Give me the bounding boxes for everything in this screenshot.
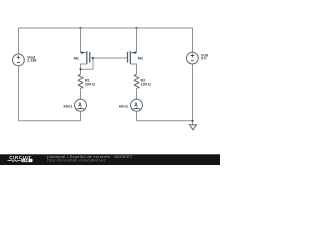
wire left branch down: [19, 66, 81, 121]
gate bar: [127, 52, 129, 63]
wire gate net M1-M2: [90, 57, 128, 59]
gate bar: [89, 52, 91, 63]
svg-text:100 Ω: 100 Ω: [85, 82, 96, 87]
wire R1 to ammeter: [80, 89, 82, 100]
resistor R1: [78, 74, 83, 88]
svg-text:M2: M2: [138, 55, 144, 60]
logo zigzag: [8, 160, 21, 162]
node drain junction M1: [79, 68, 81, 70]
wire R2 to ammeter 2: [136, 89, 138, 100]
wire ammeter 1 to bottom left rail: [80, 111, 82, 121]
svg-text:Idm1: Idm1: [63, 104, 73, 109]
wire gate to drain diode connection: [81, 58, 94, 69]
wire Vdd to ground: [192, 64, 194, 125]
watermark bar: [0, 154, 220, 165]
svg-text:LAB: LAB: [23, 159, 30, 163]
logo LAB box: [21, 159, 32, 162]
source arrow: [81, 51, 84, 54]
transistor M1: [81, 28, 90, 74]
svg-text:A: A: [134, 102, 138, 108]
channel: [129, 51, 131, 64]
wire ammeter 2 to bottom right rail: [137, 111, 193, 121]
drain lead: [81, 64, 87, 74]
node bottom right junction: [191, 120, 193, 122]
node drain M1 on top rail: [79, 27, 81, 29]
node source M2 on top rail: [135, 27, 137, 29]
svg-text:Idm2: Idm2: [119, 104, 129, 109]
wire top rail: [19, 28, 193, 54]
node gate junction: [92, 57, 94, 59]
svg-text:A: A: [78, 102, 82, 108]
source lead from rail: [81, 28, 87, 53]
svg-text:5 V: 5 V: [201, 56, 207, 61]
wire M2 drain to R2 handled above; resistor R2: [134, 74, 139, 88]
svg-text:http://circuitlab.com/c8t4rsu2: http://circuitlab.com/c8t4rsu2: [47, 158, 106, 163]
ammeter AM2 Idm2: [131, 99, 143, 111]
ground: [190, 125, 197, 130]
svg-text:2.138: 2.138: [27, 58, 37, 63]
source lead from rail: [130, 28, 136, 53]
transistor M2: [128, 28, 137, 74]
svg-text:100 Ω: 100 Ω: [141, 82, 152, 87]
drain lead: [130, 64, 136, 74]
svg-text:M1: M1: [74, 55, 80, 60]
voltage source V2 Vdd: [187, 52, 199, 64]
source arrow: [132, 51, 135, 54]
channel: [86, 51, 88, 64]
voltage source V1 Vout: [13, 54, 25, 66]
ammeter AM1 Idm1: [75, 99, 87, 111]
